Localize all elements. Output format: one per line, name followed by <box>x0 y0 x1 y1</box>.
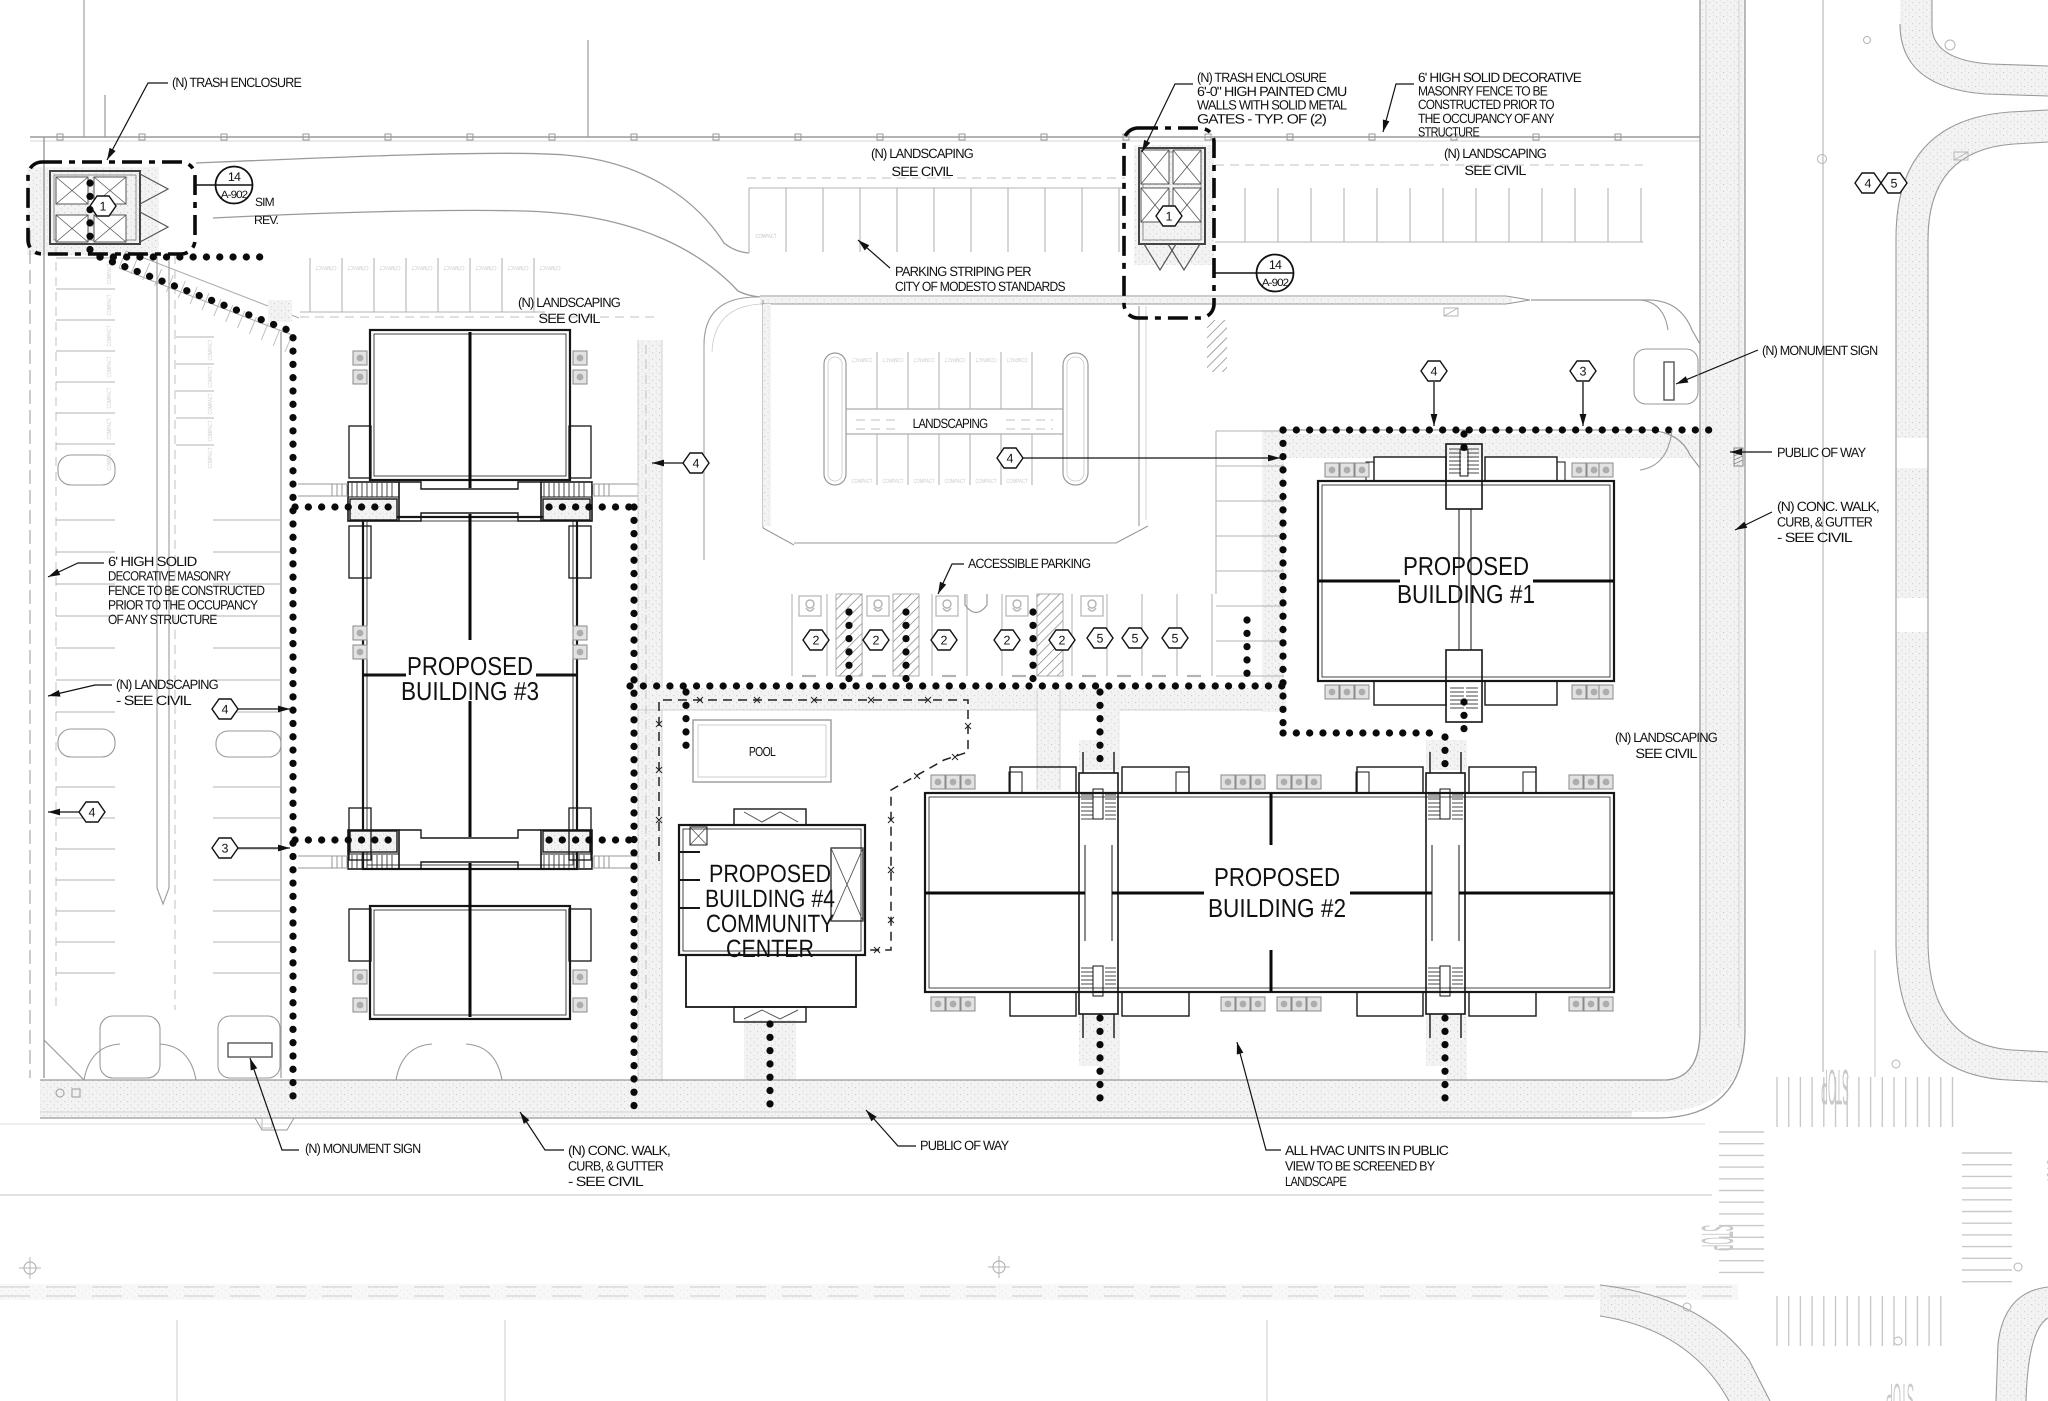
building 3 side porches <box>349 426 371 478</box>
svg-text:COMPACT: COMPACT <box>975 356 996 363</box>
svg-text:BUILDING #4: BUILDING #4 <box>705 885 835 913</box>
svg-text:COMPACT: COMPACT <box>106 387 113 408</box>
top road curbs from NW entrance <box>196 153 749 253</box>
svg-text:ACCESSIBLE PARKING: ACCESSIBLE PARKING <box>968 556 1091 571</box>
svg-text:COMPACT: COMPACT <box>106 356 113 377</box>
building 4 small x-box <box>690 827 707 845</box>
svg-text:(N) LANDSCAPING: (N) LANDSCAPING <box>1615 730 1717 745</box>
right walk curbs <box>1699 0 1701 1030</box>
col B islands <box>216 731 281 757</box>
crosswalk ladders bottom-right intersection <box>1776 1077 1778 1127</box>
top property line / masonry fence line <box>30 136 1700 138</box>
central lot bottom stalls <box>876 434 878 485</box>
svg-text:6'-0" HIGH PAINTED CMU: 6'-0" HIGH PAINTED CMU <box>1197 84 1347 99</box>
left parking: center landscape strip <box>156 255 158 888</box>
bottom street dashed centerline <box>0 1286 1738 1288</box>
building 4 top porch <box>734 809 806 825</box>
svg-text:COMPACT: COMPACT <box>379 264 400 271</box>
svg-text:COMPACT: COMPACT <box>106 418 113 439</box>
svg-text:PUBLIC OF WAY: PUBLIC OF WAY <box>1777 445 1866 460</box>
svg-text:BUILDING #3: BUILDING #3 <box>401 676 539 706</box>
svg-text:COMPACT: COMPACT <box>1006 478 1027 485</box>
svg-text:PROPOSED: PROPOSED <box>1403 551 1529 581</box>
svg-text:REV.: REV. <box>254 213 279 227</box>
svg-text:2: 2 <box>813 634 820 648</box>
central landscaping H-island: end slots <box>824 353 846 485</box>
svg-text:(N) LANDSCAPING: (N) LANDSCAPING <box>1444 146 1546 161</box>
building 3 mid module <box>363 517 577 869</box>
dotted route S of central parking <box>630 682 1284 689</box>
svg-text:BUILDING #1: BUILDING #1 <box>1397 579 1535 609</box>
svg-text:ALL HVAC UNITS IN PUBLIC: ALL HVAC UNITS IN PUBLIC <box>1285 1143 1449 1158</box>
svg-text:STOP: STOP <box>1692 1225 1743 1251</box>
monument sign right island <box>1634 349 1698 404</box>
detail circle 14/A-902 (1) <box>216 167 253 204</box>
svg-text:4: 4 <box>1431 365 1438 379</box>
svg-text:14: 14 <box>228 170 241 184</box>
svg-text:COMPACT: COMPACT <box>913 356 934 363</box>
svg-text:STOP: STOP <box>2041 1159 2048 1185</box>
svg-text:(N) TRASH ENCLOSURE: (N) TRASH ENCLOSURE <box>1197 70 1327 85</box>
svg-text:WALLS WITH SOLID METAL: WALLS WITH SOLID METAL <box>1197 98 1348 113</box>
building 2 bottom wings <box>1010 992 1076 1016</box>
building 2 stair column right <box>1426 773 1465 1014</box>
svg-text:DECORATIVE MASONRY: DECORATIVE MASONRY <box>108 569 231 584</box>
building 2 module wall <box>1270 793 1273 845</box>
hatch mark on right walk <box>1734 448 1743 466</box>
svg-text:- SEE CIVIL: - SEE CIVIL <box>1777 530 1853 545</box>
dotted bldg2 stair tops <box>1096 692 1103 766</box>
enclosure 1 gates (chevrons) <box>140 174 168 204</box>
svg-text:- SEE CIVIL: - SEE CIVIL <box>568 1174 644 1189</box>
left parking stall dividers col B upper (compact) <box>176 336 214 338</box>
svg-text:COMPACT: COMPACT <box>411 264 432 271</box>
diagonal hatched walk from enclosure1 <box>126 251 299 318</box>
stalls facing bldg1 walk <box>1216 430 1284 432</box>
svg-text:SEE CIVIL: SEE CIVIL <box>891 164 954 179</box>
svg-text:1: 1 <box>100 200 107 214</box>
svg-text:COMPACT: COMPACT <box>106 294 113 315</box>
enclosure 1 walls <box>50 171 140 244</box>
street light poles <box>24 1262 36 1274</box>
svg-text:4: 4 <box>1007 452 1014 466</box>
svg-text:4: 4 <box>693 457 700 471</box>
building 4 wall stubs <box>679 851 700 853</box>
svg-text:COMPACT: COMPACT <box>851 478 872 485</box>
svg-text:5: 5 <box>1172 632 1179 646</box>
svg-text:PROPOSED: PROPOSED <box>709 860 831 888</box>
svg-text:COMPACT: COMPACT <box>443 264 464 271</box>
svg-text:CITY OF MODESTO STANDARDS: CITY OF MODESTO STANDARDS <box>895 279 1066 294</box>
svg-text:STRUCTURE: STRUCTURE <box>1418 124 1480 139</box>
accessible parking row <box>791 594 793 676</box>
dotted pool gate <box>682 692 689 748</box>
svg-text:PARKING STRIPING PER: PARKING STRIPING PER <box>895 264 1032 279</box>
small utility symbols right street <box>1818 155 1827 164</box>
svg-text:PRIOR TO THE OCCUPANCY: PRIOR TO THE OCCUPANCY <box>108 598 258 613</box>
building 4 interior X room <box>831 848 863 921</box>
vertical ticks above top line <box>587 40 589 137</box>
right entrance drive curbs <box>1531 300 1700 344</box>
SW corner curbs of bottom intersection <box>1600 1285 1770 1401</box>
svg-text:2: 2 <box>1004 634 1011 648</box>
building 4 bottom porch <box>734 1007 806 1022</box>
central lot boundary <box>762 300 764 528</box>
building 2 HVAC pads <box>931 775 945 789</box>
building 4 main <box>679 825 865 955</box>
monument sign bottom <box>228 1043 272 1057</box>
dotted stubs bldg1 stairs <box>1460 434 1467 458</box>
svg-text:SEE CIVIL: SEE CIVIL <box>1464 163 1527 178</box>
pool fence dashed with x <box>659 700 968 950</box>
dotted stubs accessible aisles <box>845 612 852 684</box>
right street centerline <box>1822 0 1824 1072</box>
svg-text:COMPACT: COMPACT <box>207 393 214 414</box>
building 2 top wings <box>1010 767 1076 793</box>
svg-text:(N) LANDSCAPING: (N) LANDSCAPING <box>871 146 973 161</box>
svg-text:(N) CONC. WALK,: (N) CONC. WALK, <box>1777 499 1879 514</box>
svg-text:2: 2 <box>873 634 880 648</box>
dotted bldg4 to walk <box>766 1024 773 1110</box>
enclosure 2 hatch strip <box>1207 320 1227 372</box>
dotted rectangle around bldg1 <box>1283 426 1714 433</box>
svg-text:COMPACT: COMPACT <box>1006 356 1027 363</box>
building 1 HVAC pads <box>1325 463 1339 477</box>
svg-text:A-902: A-902 <box>1262 277 1290 289</box>
SE corner curbs <box>1996 1287 2048 1401</box>
building 1 center wall <box>1318 580 1400 583</box>
svg-text:COMPACT: COMPACT <box>755 233 776 240</box>
svg-text:STOP: STOP <box>1821 1059 1849 1115</box>
building 3 HVAC pads <box>353 351 367 365</box>
concrete walk bands (stippled) <box>40 1080 1632 1118</box>
col B dividers <box>213 519 281 521</box>
svg-text:CENTER: CENTER <box>726 935 814 963</box>
svg-text:SEE CIVIL: SEE CIVIL <box>1635 746 1698 761</box>
building 2 stair column left <box>1079 773 1118 1014</box>
building 1 bottom wings <box>1374 681 1446 705</box>
svg-text:LANDSCAPING: LANDSCAPING <box>913 416 988 431</box>
svg-text:4: 4 <box>1865 177 1872 191</box>
building 2 body <box>925 793 1614 992</box>
svg-text:3: 3 <box>222 842 229 856</box>
svg-text:(N) LANDSCAPING: (N) LANDSCAPING <box>116 677 218 692</box>
svg-text:COMPACT: COMPACT <box>475 264 496 271</box>
building 3 upper stair band <box>348 482 399 521</box>
wheel stops <box>802 675 816 677</box>
svg-text:COMPACT: COMPACT <box>106 263 113 284</box>
svg-text:COMPACT: COMPACT <box>207 420 214 441</box>
enclosure 2 walls <box>1139 148 1205 244</box>
svg-text:4: 4 <box>89 806 96 820</box>
hex keynotes <box>683 453 709 473</box>
building 2 center wall <box>925 892 1085 895</box>
svg-text:- SEE CIVIL: - SEE CIVIL <box>116 693 192 708</box>
building 1 bottom stair <box>1446 650 1482 722</box>
building 1 center corridor <box>1458 509 1460 650</box>
detail circle 14/A-902 (2) <box>1257 255 1294 292</box>
top-middle stalls row <box>748 188 750 253</box>
svg-text:COMPACT: COMPACT <box>347 264 368 271</box>
svg-text:COMPACT: COMPACT <box>106 325 113 346</box>
svg-text:LANDSCAPE: LANDSCAPE <box>1285 1174 1347 1189</box>
building 4 lower section <box>686 955 856 1007</box>
svg-text:FENCE TO BE CONSTRUCTED: FENCE TO BE CONSTRUCTED <box>108 583 265 598</box>
svg-text:COMPACT: COMPACT <box>944 478 965 485</box>
svg-text:2: 2 <box>941 634 948 648</box>
dotted bldg2 stairs to walk <box>1096 1018 1103 1110</box>
svg-text:2: 2 <box>1059 634 1066 648</box>
trash enclosure 2 dash-dot boundary <box>1124 128 1214 318</box>
svg-text:GATES - TYP. OF (2): GATES - TYP. OF (2) <box>1197 111 1326 126</box>
dotted route segs at bldg3 stairs <box>295 503 396 510</box>
svg-text:COMMUNITY: COMMUNITY <box>706 910 834 938</box>
svg-text:(N) LANDSCAPING: (N) LANDSCAPING <box>518 295 620 310</box>
svg-text:14: 14 <box>1269 258 1282 272</box>
monument sign right symbol <box>1664 362 1674 400</box>
wheelchair sign boxes <box>799 596 821 616</box>
svg-text:5: 5 <box>1132 632 1139 646</box>
building 1 body <box>1318 481 1614 681</box>
enclosure 1 gate boxes <box>56 177 88 204</box>
left parking stall dividers col A <box>56 257 115 259</box>
svg-text:COMPACT: COMPACT <box>207 339 214 360</box>
trash enclosure 1 dash-dot boundary <box>28 162 195 254</box>
svg-text:COMPACT: COMPACT <box>913 478 934 485</box>
right street east curbs <box>1896 110 2048 238</box>
svg-text:OF ANY STRUCTURE: OF ANY STRUCTURE <box>108 612 217 627</box>
svg-text:CURB, & GUTTER: CURB, & GUTTER <box>568 1159 664 1174</box>
building 3 lower module <box>370 906 570 1019</box>
svg-text:BUILDING #2: BUILDING #2 <box>1208 893 1346 923</box>
left property line <box>43 137 45 1078</box>
svg-text:5: 5 <box>1097 632 1104 646</box>
svg-text:CURB, & GUTTER: CURB, & GUTTER <box>1777 515 1873 530</box>
svg-text:COMPACT: COMPACT <box>882 478 903 485</box>
building 3 center wall <box>469 332 472 488</box>
central lot top stalls <box>876 352 878 409</box>
central island middle band <box>846 408 1063 410</box>
svg-text:SEE CIVIL: SEE CIVIL <box>538 311 601 326</box>
svg-text:SIM: SIM <box>255 195 275 209</box>
dotted route E of bldg3 <box>630 507 637 1110</box>
enclosure 1 dots <box>86 183 93 252</box>
svg-text:COMPACT: COMPACT <box>882 356 903 363</box>
building 1 top stair <box>1446 444 1482 509</box>
hexagon 1 <box>90 196 116 216</box>
svg-text:COMPACT: COMPACT <box>207 447 214 468</box>
svg-text:COMPACT: COMPACT <box>207 366 214 387</box>
svg-text:PUBLIC OF WAY: PUBLIC OF WAY <box>920 1138 1009 1153</box>
curb flares at bottom driveways <box>84 1044 120 1080</box>
svg-text:COMPACT: COMPACT <box>539 264 560 271</box>
svg-text:(N) MONUMENT SIGN: (N) MONUMENT SIGN <box>305 1141 420 1156</box>
building 3 walk stubs at stairs <box>298 483 348 485</box>
west aisle curves <box>704 297 757 345</box>
building 3 lower stair band <box>348 830 399 869</box>
svg-text:(N) TRASH ENCLOSURE: (N) TRASH ENCLOSURE <box>172 75 302 90</box>
svg-text:COMPACT: COMPACT <box>507 264 528 271</box>
svg-text:(N) CONC. WALK,: (N) CONC. WALK, <box>568 1143 670 1158</box>
svg-text:STOP: STOP <box>1886 1375 1914 1401</box>
svg-text:1: 1 <box>1166 210 1173 224</box>
svg-text:COMPACT: COMPACT <box>975 478 996 485</box>
svg-text:(N) MONUMENT SIGN: (N) MONUMENT SIGN <box>1762 343 1877 358</box>
left parking islands col A <box>58 455 115 485</box>
svg-text:VIEW TO BE SCREENED BY: VIEW TO BE SCREENED BY <box>1285 1159 1435 1174</box>
top-right stalls row <box>1244 188 1246 242</box>
bottom-left corner chamfer <box>44 1040 84 1080</box>
building 1 top wings <box>1374 457 1446 481</box>
svg-text:6' HIGH SOLID: 6' HIGH SOLID <box>108 554 197 569</box>
bottom walk curbs and street lines <box>40 1079 1632 1081</box>
curb ramp <box>965 594 987 613</box>
dotted route from enclosure1 down left side <box>100 257 293 1104</box>
svg-text:A-902: A-902 <box>221 189 249 201</box>
svg-text:COMPACT: COMPACT <box>851 356 872 363</box>
svg-text:3: 3 <box>1580 365 1587 379</box>
pool <box>693 720 831 782</box>
top-left stalls row (by entrance) <box>309 258 311 312</box>
svg-text:POOL: POOL <box>749 744 776 759</box>
svg-text:PROPOSED: PROPOSED <box>1214 862 1340 892</box>
svg-text:5: 5 <box>1891 177 1898 191</box>
building 3 outline upper module <box>370 330 570 480</box>
svg-text:COMPACT: COMPACT <box>944 356 965 363</box>
svg-text:4: 4 <box>222 703 229 717</box>
svg-text:COMPACT: COMPACT <box>315 264 336 271</box>
